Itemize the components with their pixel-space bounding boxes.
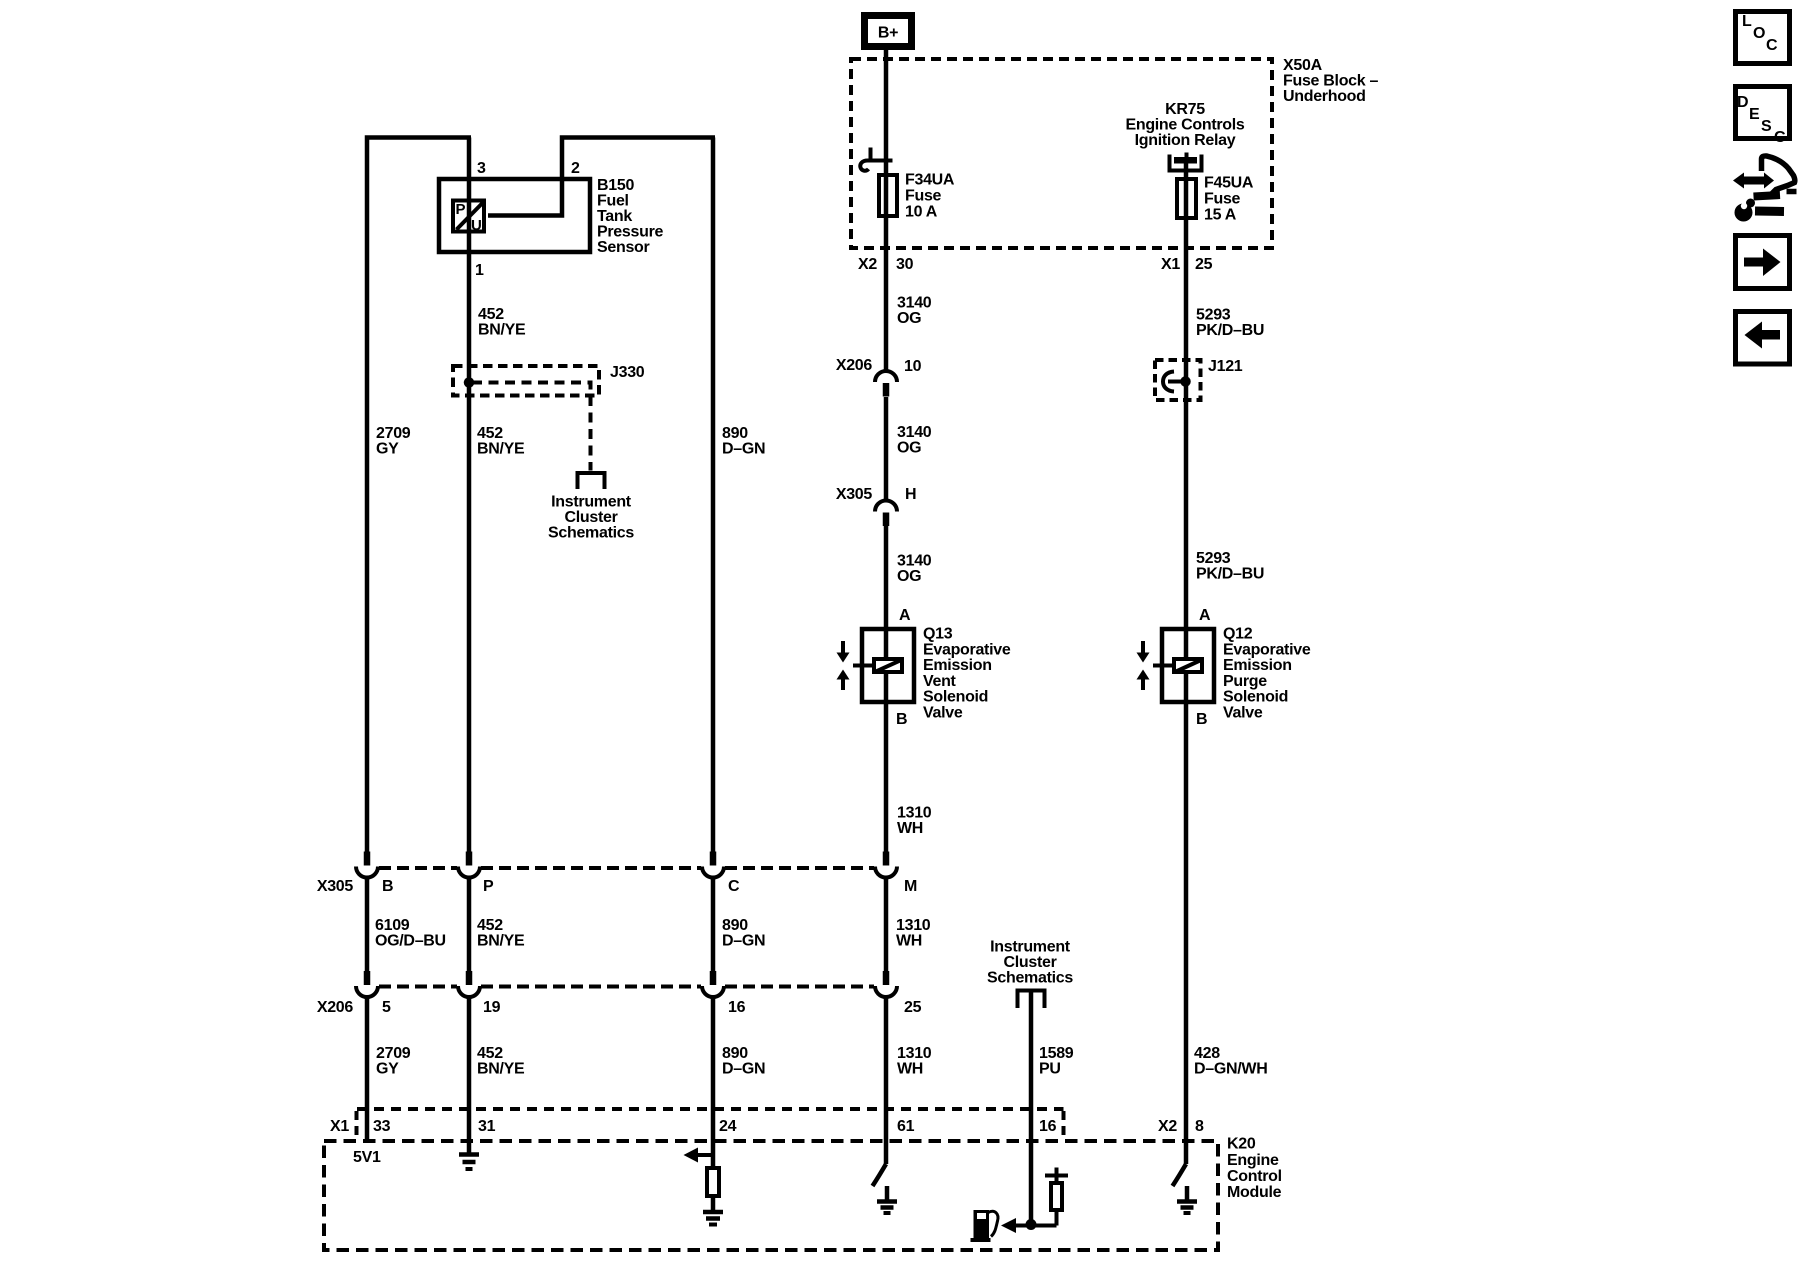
svg-text:890: 890	[722, 1045, 748, 1062]
svg-text:30: 30	[896, 256, 914, 273]
svg-text:P: P	[483, 878, 494, 895]
svg-text:D–GN/WH: D–GN/WH	[1194, 1061, 1267, 1078]
svg-text:Schematics: Schematics	[987, 970, 1073, 987]
svg-text:Q13: Q13	[923, 626, 953, 643]
svg-text:Module: Module	[1227, 1184, 1282, 1201]
svg-text:BN/YE: BN/YE	[478, 322, 526, 339]
svg-text:B: B	[896, 711, 907, 728]
svg-text:31: 31	[478, 1118, 496, 1135]
svg-text:B: B	[382, 878, 393, 895]
svg-text:3140: 3140	[897, 424, 932, 441]
svg-text:Instrument: Instrument	[990, 939, 1071, 956]
svg-text:3140: 3140	[897, 553, 932, 570]
svg-text:D–GN: D–GN	[722, 1061, 765, 1078]
svg-text:8: 8	[1195, 1118, 1204, 1135]
svg-text:H: H	[905, 486, 916, 503]
svg-text:OG: OG	[897, 310, 921, 327]
svg-text:16: 16	[1039, 1118, 1057, 1135]
svg-text:Instrument: Instrument	[551, 494, 632, 511]
svg-text:X50A: X50A	[1283, 57, 1323, 74]
svg-text:25: 25	[1195, 256, 1213, 273]
svg-text:Vent: Vent	[923, 673, 957, 690]
svg-text:X206: X206	[317, 999, 354, 1016]
svg-text:OG: OG	[897, 440, 921, 457]
svg-text:452: 452	[478, 306, 504, 323]
svg-text:3: 3	[477, 160, 486, 177]
svg-text:Control: Control	[1227, 1168, 1282, 1185]
svg-text:BN/YE: BN/YE	[477, 1061, 525, 1078]
svg-text:1589: 1589	[1039, 1045, 1074, 1062]
svg-text:GY: GY	[376, 1061, 399, 1078]
svg-text:Purge: Purge	[1223, 673, 1267, 690]
svg-text:5293: 5293	[1196, 550, 1231, 567]
svg-text:KR75: KR75	[1165, 101, 1205, 118]
svg-text:B+: B+	[878, 25, 898, 42]
svg-text:Emission: Emission	[1223, 657, 1292, 674]
svg-text:WH: WH	[897, 820, 923, 837]
svg-text:1310: 1310	[897, 805, 932, 822]
svg-text:2709: 2709	[376, 425, 411, 442]
svg-text:M: M	[904, 878, 917, 895]
svg-text:452: 452	[477, 425, 503, 442]
svg-text:Solenoid: Solenoid	[923, 689, 988, 706]
svg-text:O: O	[1753, 25, 1765, 42]
svg-text:Valve: Valve	[1223, 705, 1263, 722]
svg-text:BN/YE: BN/YE	[477, 933, 525, 950]
svg-text:OG: OG	[897, 568, 921, 585]
svg-text:C: C	[1774, 129, 1786, 146]
svg-text:P: P	[456, 201, 466, 218]
svg-text:X305: X305	[317, 878, 354, 895]
svg-text:X1: X1	[330, 1118, 349, 1135]
svg-text:PK/D–BU: PK/D–BU	[1196, 566, 1264, 583]
svg-text:Valve: Valve	[923, 705, 963, 722]
svg-text:890: 890	[722, 917, 748, 934]
svg-text:Evaporative: Evaporative	[1223, 642, 1311, 659]
svg-text:428: 428	[1194, 1045, 1220, 1062]
svg-text:S: S	[1761, 118, 1772, 135]
svg-text:33: 33	[373, 1118, 391, 1135]
svg-text:2709: 2709	[376, 1045, 411, 1062]
svg-text:Fuse: Fuse	[905, 188, 942, 205]
svg-text:K20: K20	[1227, 1136, 1256, 1153]
svg-text:D–GN: D–GN	[722, 441, 765, 458]
svg-text:D: D	[1737, 94, 1748, 111]
svg-text:Solenoid: Solenoid	[1223, 689, 1288, 706]
svg-text:Pressure: Pressure	[597, 224, 663, 241]
svg-text:OG/D–BU: OG/D–BU	[375, 933, 446, 950]
svg-text:C: C	[728, 878, 740, 895]
svg-text:X2: X2	[1158, 1118, 1177, 1135]
svg-text:16: 16	[728, 999, 746, 1016]
svg-text:Ignition Relay: Ignition Relay	[1135, 132, 1236, 149]
svg-text:E: E	[1749, 106, 1760, 123]
svg-text:J330: J330	[610, 364, 645, 381]
svg-text:1310: 1310	[897, 1045, 932, 1062]
svg-text:L: L	[1742, 13, 1752, 30]
svg-text:15 A: 15 A	[1204, 207, 1237, 224]
svg-text:C: C	[1766, 37, 1778, 54]
svg-text:Emission: Emission	[923, 657, 992, 674]
svg-text:A: A	[899, 607, 911, 624]
svg-text:3140: 3140	[897, 295, 932, 312]
svg-text:25: 25	[904, 999, 922, 1016]
svg-text:Sensor: Sensor	[597, 239, 650, 256]
svg-text:Cluster: Cluster	[564, 509, 617, 526]
svg-text:Underhood: Underhood	[1283, 88, 1366, 105]
svg-text:10: 10	[904, 358, 922, 375]
svg-text:Engine: Engine	[1227, 1152, 1279, 1169]
svg-text:19: 19	[483, 999, 501, 1016]
svg-text:GY: GY	[376, 441, 399, 458]
svg-text:452: 452	[477, 1045, 503, 1062]
svg-text:B: B	[1196, 711, 1207, 728]
svg-text:Tank: Tank	[597, 208, 632, 225]
svg-text:2: 2	[571, 160, 580, 177]
svg-text:6109: 6109	[375, 917, 410, 934]
svg-text:WH: WH	[896, 933, 922, 950]
svg-text:B150: B150	[597, 177, 634, 194]
svg-text:Cluster: Cluster	[1003, 954, 1056, 971]
svg-text:F45UA: F45UA	[1204, 175, 1254, 192]
svg-text:Q12: Q12	[1223, 626, 1253, 643]
svg-text:452: 452	[477, 917, 503, 934]
svg-text:890: 890	[722, 425, 748, 442]
svg-text:BN/YE: BN/YE	[477, 441, 525, 458]
svg-text:D–GN: D–GN	[722, 933, 765, 950]
svg-text:U: U	[471, 217, 482, 234]
svg-text:Fuel: Fuel	[597, 193, 629, 210]
svg-text:PK/D–BU: PK/D–BU	[1196, 322, 1264, 339]
svg-text:X206: X206	[836, 357, 873, 374]
svg-text:J121: J121	[1208, 358, 1243, 375]
svg-text:5V1: 5V1	[353, 1149, 381, 1166]
svg-text:Engine Controls: Engine Controls	[1125, 117, 1244, 134]
svg-text:X1: X1	[1161, 256, 1180, 273]
svg-text:Evaporative: Evaporative	[923, 642, 1011, 659]
svg-text:1310: 1310	[896, 917, 931, 934]
svg-text:1: 1	[475, 262, 484, 279]
svg-text:A: A	[1199, 607, 1211, 624]
svg-text:24: 24	[719, 1118, 737, 1135]
svg-text:Schematics: Schematics	[548, 525, 634, 542]
svg-text:10 A: 10 A	[905, 204, 938, 221]
svg-text:X305: X305	[836, 486, 873, 503]
svg-text:F34UA: F34UA	[905, 172, 955, 189]
svg-text:61: 61	[897, 1118, 915, 1135]
svg-text:WH: WH	[897, 1061, 923, 1078]
svg-text:5293: 5293	[1196, 307, 1231, 324]
svg-text:5: 5	[382, 999, 391, 1016]
svg-text:Fuse: Fuse	[1204, 191, 1241, 208]
svg-text:PU: PU	[1039, 1061, 1061, 1078]
svg-text:X2: X2	[858, 256, 877, 273]
svg-text:Fuse Block –: Fuse Block –	[1283, 73, 1379, 90]
